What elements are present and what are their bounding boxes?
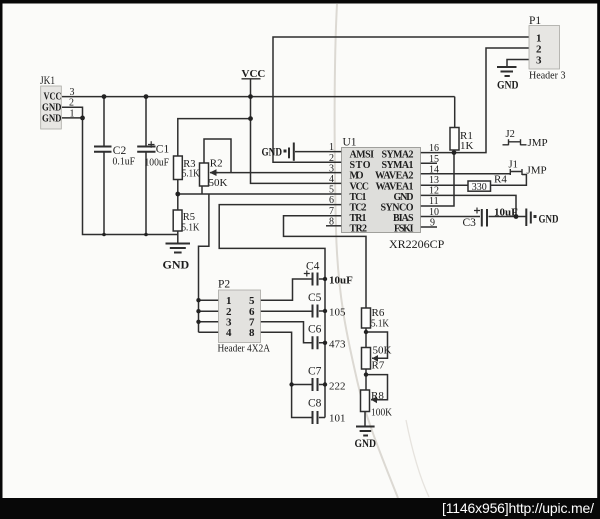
svg-text:C3: C3 (463, 217, 477, 229)
svg-text:105: 105 (329, 307, 346, 319)
svg-text:C4: C4 (306, 261, 320, 273)
svg-text:3: 3 (70, 87, 75, 98)
svg-text:330: 330 (472, 182, 487, 193)
svg-text:8: 8 (329, 216, 334, 227)
svg-text:4: 4 (329, 174, 334, 185)
svg-text:10uF: 10uF (329, 275, 353, 287)
wire U1 pin15 stub (421, 162, 438, 164)
node C7 left branch (289, 382, 293, 386)
svg-text:13: 13 (429, 175, 439, 186)
wire TR1 net to R6 (284, 216, 367, 308)
svg-text:P2: P2 (218, 279, 230, 291)
node R6 R7 junction (364, 330, 368, 334)
node C5 on bus (323, 309, 327, 313)
svg-text:JMP: JMP (527, 165, 547, 177)
svg-text:GND: GND (539, 214, 559, 226)
connector JK1 (40, 75, 75, 129)
svg-text:100uF: 100uF (145, 157, 170, 169)
svg-text:XR2206CP: XR2206CP (389, 237, 445, 251)
svg-text:9: 9 (430, 217, 435, 228)
wire VCC branch down to node and U1 pin4 (251, 97, 342, 184)
svg-text:R8: R8 (371, 390, 384, 402)
wire P1 pin1 net to U1 pin2 (273, 37, 529, 162)
svg-text:GND: GND (355, 438, 377, 450)
capacitor C6 (308, 324, 346, 351)
svg-text:3: 3 (536, 55, 542, 67)
svg-text:C5: C5 (308, 292, 322, 304)
wire JK1 pin2 to gnd drop (62, 107, 83, 118)
wire TC2 net to cap bus (219, 205, 341, 418)
svg-text:AMSI: AMSI (350, 150, 375, 161)
wire VCC rail (62, 96, 455, 98)
svg-text:5.1K: 5.1K (182, 169, 200, 180)
wire C1 leads (145, 97, 147, 235)
svg-text:J1: J1 (509, 160, 518, 171)
svg-text:100K: 100K (371, 408, 392, 419)
svg-text:0.1uF: 0.1uF (113, 156, 136, 168)
connector P1 (529, 15, 566, 82)
wire P1 pin3 to gnd (507, 60, 529, 67)
wire U1 pin12 net to C3 gnd node (421, 195, 517, 216)
jumper J1 (509, 160, 547, 177)
node R7 R8 junction (364, 372, 368, 376)
node VCC stub on rail (248, 94, 253, 99)
potentiometer R8 (361, 390, 393, 419)
wire R8 wiper bracket (366, 375, 388, 400)
svg-text:R2: R2 (210, 158, 223, 170)
wire C7 left lead (292, 384, 312, 386)
wire R6 bottom chain (365, 328, 367, 348)
svg-text:12: 12 (429, 186, 439, 197)
resistor R1 (450, 128, 474, 153)
svg-text:STO: STO (350, 160, 371, 171)
resistor R6 (362, 307, 390, 330)
svg-text:6: 6 (329, 195, 334, 206)
wire cap right leads C4 C5 C6 C7 C8 (319, 279, 325, 418)
svg-text:8: 8 (249, 327, 255, 339)
svg-text:50K: 50K (209, 177, 228, 189)
node C1 top on VCC rail (144, 94, 149, 99)
wire U1 pin10 to C3 (421, 216, 481, 218)
svg-text:TR2: TR2 (350, 224, 368, 235)
svg-text:C6: C6 (308, 324, 322, 336)
potentiometer R7 (362, 345, 392, 372)
wire P2 pin6 to C5 (261, 310, 312, 312)
wire U1 pin9 stub (421, 226, 438, 228)
svg-text:SYMA2: SYMA2 (382, 150, 414, 161)
svg-text:2: 2 (329, 153, 334, 164)
wire R7 wiper bracket (366, 332, 388, 358)
svg-text:R5: R5 (183, 212, 195, 223)
capacitor to ground right of C3 (526, 209, 558, 227)
wire VCC symbol stub (250, 79, 252, 97)
node R1 bottom pin16 net (452, 150, 457, 155)
wire R1 top from VCC rail (454, 97, 456, 128)
wire TC1 net horizontal (178, 193, 342, 195)
wire TC1 branch to P2 (199, 194, 209, 332)
svg-text:FSKI: FSKI (394, 224, 414, 235)
svg-text:R6: R6 (372, 307, 385, 319)
wire R2 top bracket (204, 139, 231, 173)
capacitor C3 (463, 207, 519, 230)
node P2 pin3 junction (196, 320, 200, 324)
svg-text:JK1: JK1 (40, 75, 55, 87)
svg-text:GND: GND (394, 192, 414, 203)
svg-text:TR1: TR1 (350, 213, 367, 224)
node C2 top on VCC rail (102, 94, 107, 99)
resistor R3 (174, 156, 200, 180)
wire pin16 branch to pin11 (421, 153, 455, 206)
svg-text:GND: GND (42, 103, 62, 114)
node VCC branch to R3 (248, 116, 253, 121)
svg-text:WAVEA2: WAVEA2 (375, 171, 414, 182)
wire P2 pin8 to C7 C8 (261, 332, 312, 417)
wire U1 pin1 to cap (295, 151, 342, 153)
svg-text:1K: 1K (460, 140, 474, 152)
frame right (597, 0, 600, 519)
resistor R5 (173, 210, 200, 234)
svg-text:3: 3 (329, 163, 334, 174)
node C2 bottom on ground rail (102, 233, 106, 237)
wire P2 pin2 stub (199, 310, 219, 312)
wire left ground rail (83, 118, 178, 235)
ground under R8 (355, 427, 377, 451)
svg-text:1: 1 (329, 142, 334, 153)
jumper J2 (503, 129, 548, 149)
node C7 on bus (323, 382, 327, 386)
scan crease vertical (335, 4, 398, 498)
wire R3 bottom to TC1 net (177, 180, 179, 195)
svg-text:R4: R4 (494, 174, 507, 186)
svg-text:Header 3: Header 3 (529, 70, 566, 82)
wire node to R3 top (178, 119, 251, 156)
node TC1 R3 R5 junction (175, 192, 180, 197)
svg-text:R7: R7 (372, 360, 385, 372)
wire R2 wiper net to U1 pin3 (212, 172, 342, 174)
resistor R4 value box 330 (468, 174, 507, 194)
wire C3 right to gnd cap (489, 216, 526, 218)
svg-text:SYMA1: SYMA1 (382, 160, 414, 171)
power VCC symbol (242, 68, 266, 80)
svg-text:VCC: VCC (44, 92, 62, 103)
frame left (0, 0, 3, 519)
IC U1 XR2206CP (329, 137, 445, 252)
wire JK1 pin1 (62, 117, 83, 119)
wire R8 bottom to gnd (364, 412, 366, 427)
potentiometer R2 (200, 158, 228, 189)
capacitor C7 (308, 366, 346, 393)
svg-text:1: 1 (70, 108, 75, 119)
frame top (0, 0, 600, 4)
svg-text:C8: C8 (308, 398, 322, 410)
ground under R5 (163, 235, 191, 272)
svg-text:SYNCO: SYNCO (381, 203, 414, 214)
scan crease bottom-left (406, 420, 429, 497)
svg-text:U1: U1 (343, 137, 357, 149)
capacitor C2 (94, 145, 135, 168)
node pin12 C3 gnd junction (514, 214, 519, 219)
ground under P1 pin3 (497, 67, 519, 92)
capacitor to ground at U1 pin1 (262, 143, 294, 161)
svg-text:5.1K: 5.1K (182, 223, 200, 234)
wire P2 pin5 to C4 (261, 279, 312, 300)
svg-text:MO: MO (350, 171, 364, 182)
wire P1 pin2 net to U1 pin16 (421, 48, 530, 153)
capacitor C5 (308, 292, 346, 319)
svg-text:5: 5 (329, 185, 334, 196)
svg-text:GND: GND (42, 113, 62, 124)
wire TR2 stub (326, 225, 342, 227)
svg-text:10uF: 10uF (494, 207, 518, 219)
wire R5 leads (177, 194, 179, 235)
svg-text:C7: C7 (308, 366, 322, 378)
wire U1 pin14 net to J1 (421, 173, 511, 175)
svg-text:7: 7 (329, 206, 334, 217)
wire P2 pin3 stub (199, 321, 219, 323)
svg-text:10: 10 (429, 207, 439, 218)
capacitor C1 (137, 141, 169, 168)
svg-text:VCC: VCC (350, 181, 370, 192)
capacitor C4 (304, 261, 353, 287)
svg-text:4: 4 (226, 327, 232, 339)
node P2 pin2 junction (196, 309, 200, 313)
svg-text:101: 101 (329, 413, 346, 425)
node P2 pin1 junction (196, 298, 200, 302)
svg-text:50K: 50K (373, 345, 392, 357)
svg-text:15: 15 (429, 154, 439, 165)
wire P2 pin1 stub (199, 299, 219, 301)
wire R2 bottom (201, 186, 203, 194)
svg-text:GND: GND (497, 80, 519, 92)
svg-text:[1146x956]http://upic.me/: [1146x956]http://upic.me/ (442, 500, 594, 516)
wire P2 pin7 to C6 (261, 322, 312, 343)
svg-text:WAVEA1: WAVEA1 (376, 181, 414, 192)
node C4 on bus (323, 277, 327, 281)
svg-text:14: 14 (429, 164, 439, 175)
node JK1 gnd junction (80, 116, 85, 121)
svg-text:5.1K: 5.1K (371, 319, 389, 330)
svg-text:222: 222 (329, 381, 346, 393)
wire R1 bottom (453, 150, 455, 153)
svg-text:JMP: JMP (528, 137, 548, 149)
wire R4 left lead to U1 pin13 (421, 184, 469, 186)
frame bottom watermark bar (0, 498, 600, 519)
capacitor C8 (308, 398, 346, 425)
wire P2 pin4 stub (199, 331, 219, 333)
node C6 on bus (323, 341, 327, 345)
wire J1 right to R4 (491, 175, 527, 186)
svg-text:2: 2 (69, 98, 74, 109)
svg-text:Header 4X2A: Header 4X2A (218, 343, 271, 355)
svg-text:GND: GND (163, 258, 190, 272)
svg-text:TC1: TC1 (350, 192, 367, 203)
node C1 bottom on ground rail (144, 233, 148, 237)
wire R7 bottom (365, 369, 367, 390)
svg-text:C1: C1 (156, 144, 170, 156)
connector P2 (218, 279, 271, 355)
svg-text:473: 473 (329, 339, 346, 351)
svg-text:11: 11 (429, 196, 439, 207)
wire C2 leads (103, 97, 105, 235)
svg-text:TC2: TC2 (350, 203, 367, 214)
svg-text:16: 16 (429, 143, 439, 154)
svg-text:J2: J2 (506, 129, 515, 140)
svg-text:GND: GND (262, 147, 283, 159)
svg-text:BIAS: BIAS (393, 213, 414, 224)
